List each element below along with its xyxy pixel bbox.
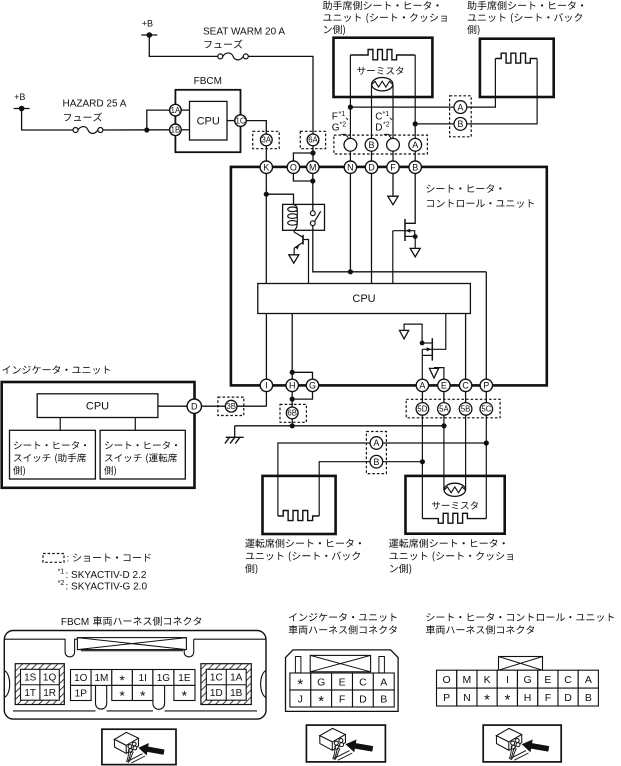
heater element R1 (passenger cushion)	[350, 50, 415, 60]
svg-text:*2: *2	[383, 122, 390, 129]
ground rail	[235, 425, 444, 427]
svg-text:3B: 3B	[226, 402, 236, 411]
wire element right lead to connector	[414, 55, 416, 138]
ground arrow (Q1 emitter)	[289, 255, 299, 263]
indicator connector shell	[286, 650, 399, 712]
node K/coil junction	[264, 192, 269, 197]
connector 5A	[438, 403, 451, 416]
label indicator unit	[2, 365, 110, 374]
pin 1B	[170, 124, 182, 136]
svg-text:O: O	[290, 162, 297, 172]
node N/feed junction	[348, 269, 353, 274]
svg-text:5D: 5D	[417, 405, 427, 414]
node Q2 source/body	[413, 234, 418, 239]
pin A (control unit bottom)	[416, 379, 428, 391]
relay K1 box	[283, 204, 325, 230]
svg-text:C: C	[462, 381, 469, 391]
svg-text:1T: 1T	[24, 688, 36, 699]
wire pin K to CPU U3	[265, 173, 267, 283]
node H/G bottom junction	[290, 397, 295, 402]
wire D to short-code 3B	[201, 405, 225, 407]
heater element R4 (driver cushion)	[422, 513, 486, 523]
svg-text:1O: 1O	[74, 673, 88, 684]
wire pin C to 5B	[465, 392, 467, 403]
short-code A/B dashed box (driver)	[366, 432, 386, 474]
svg-text:CPU: CPU	[197, 115, 220, 127]
label driver back heater line2	[246, 551, 360, 561]
svg-text:K: K	[484, 674, 491, 686]
svg-text:C: C	[375, 112, 382, 123]
passenger connector dashed box	[334, 135, 428, 154]
wire CPU U4 to pin D	[158, 405, 188, 407]
node junction to 1A	[144, 127, 149, 132]
connector 3B	[225, 400, 237, 412]
indicator unit box	[2, 382, 195, 488]
svg-text:M: M	[463, 674, 472, 686]
wire to connector A (back heater)	[350, 106, 454, 108]
node 5D/B-line junction	[420, 459, 425, 464]
svg-text:*: *	[318, 693, 324, 710]
label fuse (HAZARD)	[64, 113, 102, 122]
tick mark on connector C/D	[384, 134, 393, 139]
svg-text:I: I	[506, 674, 509, 686]
CPU U3 (control unit) box	[258, 284, 471, 314]
label passenger cushion heater line3	[324, 25, 345, 35]
indicator connector lock tab (X)	[310, 655, 370, 671]
thermistor T2	[444, 483, 466, 496]
wires connector to unit pins	[350, 151, 415, 161]
node rail/5A junction	[441, 423, 446, 428]
svg-text:D: D	[564, 692, 572, 704]
svg-text:1C: 1C	[210, 672, 223, 683]
label passenger back heater line2	[468, 13, 582, 23]
label driver back heater line1	[245, 539, 361, 548]
connector icon (indicator)	[306, 725, 385, 762]
wire feed to pin P	[485, 272, 487, 379]
wire +B to HAZARD fuse	[22, 109, 73, 131]
svg-text:G: G	[317, 676, 325, 688]
wire relay contact to feed rail	[313, 226, 487, 272]
heater element R2 (passenger back)	[495, 53, 537, 63]
wire Q2 gate to CPU U3	[392, 231, 394, 284]
svg-text:1B: 1B	[230, 688, 243, 699]
short-code 3B dashed box	[218, 397, 244, 415]
wire pin M to relay contact	[312, 173, 314, 211]
svg-text::: :	[67, 553, 70, 564]
FBCM connector shell details	[4, 639, 77, 657]
svg-text:A: A	[585, 674, 592, 686]
svg-text:*: *	[504, 692, 510, 709]
label passenger back heater line1	[467, 1, 583, 10]
svg-text:*1: *1	[383, 111, 390, 118]
short-code A/B dashed box (passenger)	[450, 96, 472, 137]
label passenger cushion heater line2	[323, 13, 446, 23]
label fuse (SEAT WARM)	[204, 40, 242, 49]
svg-text:E: E	[339, 676, 346, 688]
wire CPU U4 to switch 1	[59, 418, 61, 431]
label switch passenger l2	[14, 453, 86, 463]
control connector lock tab (X)	[499, 657, 543, 671]
thermistor T1	[372, 78, 393, 91]
wire 1A to CPU U2	[181, 109, 190, 111]
short-code 3A dashed box	[253, 131, 280, 148]
label driver back heater line3	[245, 564, 257, 574]
connector circle A (driver back)	[370, 437, 383, 450]
passenger cushion heater unit box	[334, 38, 433, 97]
wire branch from pin G (bottom)	[292, 392, 312, 400]
pin D (indicator unit)	[187, 399, 201, 413]
svg-text:A: A	[380, 676, 387, 688]
wire 3A to pin K	[265, 146, 267, 161]
node Q3 source/body	[420, 341, 425, 346]
svg-text:A: A	[457, 102, 463, 112]
wire pin H down to 6B	[291, 392, 293, 407]
wire 5B column to driver thermistor	[465, 415, 467, 490]
wire +B to SEAT WARM fuse	[149, 35, 217, 56]
svg-text:1P: 1P	[75, 689, 88, 700]
seat heater control unit box	[231, 167, 547, 386]
label switch passenger l3	[13, 466, 25, 476]
wire back heater right lead to B	[467, 59, 537, 124]
short-code 6B dashed box	[280, 404, 306, 422]
pin C (control unit bottom)	[459, 379, 471, 391]
svg-text:*1: *1	[58, 569, 65, 576]
wire CPU U3 to pins H/G	[291, 314, 293, 380]
connector circle B (driver back)	[370, 455, 383, 468]
svg-text:*: *	[119, 687, 125, 703]
wire branch to pin G (top)	[292, 372, 312, 379]
svg-text:A: A	[412, 140, 418, 150]
svg-text:+B: +B	[14, 92, 25, 102]
svg-text:E: E	[544, 674, 551, 686]
wire 5D column to driver cushion element	[421, 415, 423, 518]
pin K (control unit top)	[260, 161, 272, 173]
svg-text:3A: 3A	[262, 136, 272, 145]
seat heater switch (passenger) box	[10, 430, 96, 479]
connector circle B (passenger back)	[454, 118, 467, 131]
svg-text:1I: 1I	[139, 673, 147, 684]
wire Q3 source to ground	[404, 324, 422, 343]
fuse HAZARD 25 A	[73, 128, 78, 133]
ground arrow (pin E)	[429, 368, 438, 378]
svg-text:6A: 6A	[308, 136, 318, 145]
CPU U2 (FBCM) box	[190, 101, 228, 140]
wire A to 5C column	[383, 442, 487, 444]
svg-text:1G: 1G	[157, 673, 171, 684]
wire 1C to short-code 3A	[246, 121, 266, 134]
connector 3A	[260, 134, 272, 146]
svg-text:5B: 5B	[461, 405, 471, 414]
svg-text:C: C	[359, 676, 367, 688]
svg-text:B: B	[380, 693, 387, 705]
svg-text:1D: 1D	[210, 688, 223, 699]
wire pin N down	[349, 173, 351, 271]
wire 5C column to driver cushion element	[485, 415, 487, 518]
wire 1B to CPU U2	[181, 129, 190, 131]
wire rail to chassis ground	[234, 426, 236, 438]
driver back heater unit box	[263, 476, 336, 534]
short-code 5D/5A/5B/5C dashed box	[406, 399, 500, 418]
wire 6A down to pin M	[312, 146, 314, 161]
svg-text:D: D	[191, 401, 198, 411]
wire pin P to 5C	[485, 392, 487, 403]
connector circle F/G (blank)	[344, 138, 357, 151]
label passenger cushion heater line1	[323, 1, 439, 10]
label driver cushion heater line2	[390, 551, 513, 561]
svg-text:N: N	[463, 692, 471, 704]
label switch driver l2	[105, 453, 177, 463]
connector 5D	[416, 403, 429, 416]
relay K1 coil	[288, 204, 298, 230]
svg-text:F: F	[390, 162, 396, 172]
svg-text:+B: +B	[142, 19, 153, 29]
svg-text:D: D	[375, 122, 382, 133]
tick mark on connector F/G	[341, 134, 350, 139]
label switch driver l1	[105, 441, 177, 449]
connector circle A (passenger back)	[454, 101, 467, 114]
svg-text:H: H	[524, 692, 532, 704]
heater element R3 (driver back)	[278, 511, 319, 521]
node H/G top junction	[290, 370, 295, 375]
connector icon (FBCM)	[102, 729, 176, 764]
svg-text:*: *	[182, 687, 188, 703]
svg-text:D: D	[359, 693, 367, 705]
driver cushion heater unit box	[406, 476, 505, 534]
wire Q2 source to ground	[414, 237, 416, 249]
label control unit line1	[427, 184, 502, 193]
wire pin D to CPU U3	[371, 173, 373, 283]
label control connector l1	[427, 613, 614, 622]
svg-text:*: *	[297, 676, 303, 693]
wire branch to pin 1A	[147, 110, 170, 130]
svg-text:*: *	[119, 672, 125, 688]
indicator connector pin grid	[290, 673, 311, 690]
seat heater switch (driver) box	[100, 430, 185, 479]
transistor Q1 (relay driver NPN)	[294, 230, 303, 237]
passenger back heater unit box	[480, 39, 554, 97]
svg-text:5C: 5C	[481, 405, 491, 414]
wire CPU U2 to 1C	[227, 120, 235, 122]
wire CPU U3 to pin I	[265, 314, 267, 380]
svg-text:I: I	[265, 381, 268, 391]
wire pin E to 5A	[443, 392, 445, 403]
svg-text:5A: 5A	[439, 405, 449, 414]
control connector pin grid	[437, 670, 457, 688]
svg-text:1A: 1A	[230, 672, 243, 683]
FBCM connector middle pin grid	[71, 670, 92, 686]
pin H (control unit bottom)	[286, 379, 298, 391]
pin N (control unit top)	[344, 161, 356, 173]
label driver cushion heater line3	[390, 564, 411, 574]
wire K branch to relay coil	[266, 194, 293, 204]
wire A to driver back heater	[278, 443, 370, 516]
svg-text:1R: 1R	[43, 688, 56, 699]
MOSFET Q2 gate/body line	[393, 231, 415, 237]
node 5C/A-line junction	[484, 440, 489, 445]
svg-text:G: G	[309, 381, 316, 391]
pin G (control unit bottom)	[306, 379, 318, 391]
short-code 6A dashed box	[300, 131, 325, 148]
wire back heater left lead to A	[467, 59, 496, 108]
svg-text:1M: 1M	[94, 673, 108, 684]
svg-text:P: P	[443, 692, 450, 704]
wire CPU U3 to pin C	[465, 314, 467, 380]
label driver cushion heater line1	[389, 539, 505, 548]
svg-text:A: A	[373, 438, 379, 448]
chassis ground	[226, 436, 244, 438]
indicator connector slots	[295, 657, 301, 673]
FBCM connector pins 1C 1A 1D 1B (hatched block)	[201, 664, 251, 705]
wire B to 5D column	[383, 461, 423, 463]
node junction element/back-heater A	[348, 105, 353, 110]
svg-text:1C: 1C	[236, 116, 246, 125]
node junction element/back-heater B	[413, 121, 418, 126]
MOSFET Q3 source stub	[422, 342, 432, 344]
connector icon (control unit)	[483, 725, 561, 762]
pin I (control unit bottom)	[260, 379, 272, 391]
CPU U4 (indicator) box	[37, 394, 158, 418]
wire to connector B (back heater)	[415, 123, 454, 125]
svg-text:*1: *1	[339, 111, 346, 118]
label indicator connector l1	[289, 613, 397, 622]
wire Q1 base to CPU U3	[303, 240, 309, 284]
svg-text:1E: 1E	[178, 673, 191, 684]
FBCM box	[175, 90, 240, 152]
connector 6B	[286, 407, 298, 419]
ground arrow (Q3 source)	[400, 330, 409, 339]
svg-text:: SKYACTIV-D 2.2: : SKYACTIV-D 2.2	[66, 570, 147, 581]
wire pin B to MOSFET Q2 drain	[405, 173, 415, 223]
pin E (control unit bottom)	[438, 379, 450, 391]
label switch passenger l1	[14, 441, 86, 449]
connector 5B	[459, 403, 472, 416]
pin F (control unit top)	[387, 161, 399, 173]
MOSFET Q2 source stub	[405, 235, 415, 237]
label thermistor (driver)	[432, 501, 478, 509]
svg-text:6B: 6B	[287, 409, 297, 418]
svg-text:1B: 1B	[171, 126, 181, 135]
MOSFET Q2 channel bar	[404, 219, 406, 241]
connector circle A	[409, 138, 422, 151]
svg-text:*2: *2	[340, 122, 347, 129]
svg-text:O: O	[443, 674, 451, 686]
svg-text:D: D	[368, 162, 375, 172]
label control unit line2	[427, 199, 534, 208]
wire pin F to ground	[392, 173, 394, 196]
relay K1 contact	[310, 211, 315, 216]
legend short-code dashed box	[43, 554, 64, 563]
node 6A/O junction	[310, 150, 315, 155]
wire 3B to pin I	[237, 392, 266, 407]
svg-text:CPU: CPU	[86, 400, 109, 412]
connector circle B	[365, 138, 378, 151]
connector circle C/D (blank)	[387, 138, 400, 151]
wire SEAT WARM fuse to connector 6A	[248, 56, 313, 133]
fuse SEAT WARM 20 A	[218, 54, 223, 59]
svg-text:F: F	[545, 692, 551, 704]
svg-text:K: K	[263, 162, 269, 172]
label control connector l2	[426, 625, 534, 634]
pin D (control unit top)	[365, 161, 377, 173]
MOSFET Q3 channel bar	[431, 338, 433, 360]
pin P (control unit bottom)	[480, 379, 492, 391]
node M/O junction	[310, 178, 315, 183]
svg-text:N: N	[347, 162, 354, 172]
svg-text:C: C	[564, 674, 572, 686]
svg-text:J: J	[298, 693, 303, 705]
svg-text:B: B	[373, 457, 379, 467]
pin B (control unit top)	[409, 161, 421, 173]
wire 6B to ground rail	[291, 419, 293, 426]
svg-text:1S: 1S	[24, 672, 37, 683]
svg-text:*: *	[140, 687, 146, 703]
wire element left lead to connector	[349, 55, 351, 138]
ground arrow (Q2 source)	[410, 248, 420, 256]
wire HAZARD fuse to FBCM	[103, 129, 169, 131]
pin M (control unit top)	[307, 161, 319, 173]
wire pin A to 5D	[421, 392, 423, 403]
FBCM connector pins 1S 1Q 1T 1R (hatched block)	[15, 664, 64, 705]
svg-text:E: E	[441, 381, 447, 391]
pin 1A	[170, 104, 182, 116]
svg-text:G: G	[524, 674, 532, 686]
wire branch to pin O	[293, 153, 313, 161]
ground arrow (pin F)	[388, 196, 398, 205]
svg-text:B: B	[368, 140, 374, 150]
svg-text:*: *	[484, 692, 490, 709]
svg-text:FBCM: FBCM	[61, 617, 89, 628]
svg-text:H: H	[289, 381, 296, 391]
svg-text:A: A	[419, 381, 425, 391]
svg-text:1Q: 1Q	[43, 672, 57, 683]
connector 6A	[307, 134, 319, 146]
thermistor T1 leads	[372, 84, 394, 138]
wire CPU U4 to switch 2	[134, 418, 136, 431]
svg-text:P: P	[483, 381, 489, 391]
label switch driver l3	[104, 466, 116, 476]
MOSFET Q3 drain stub	[422, 349, 432, 379]
wire pin E ground link	[434, 368, 444, 380]
svg-text:FBCM: FBCM	[194, 76, 222, 87]
svg-text:1A: 1A	[171, 106, 181, 115]
svg-text:F: F	[332, 112, 338, 123]
label thermistor (passenger)	[357, 67, 403, 75]
svg-text:: SKYACTIV-G 2.0: : SKYACTIV-G 2.0	[66, 582, 148, 593]
label passenger back heater line3	[467, 25, 479, 35]
connector 5C	[480, 403, 493, 416]
FBCM connector shell	[4, 631, 266, 720]
svg-text:M: M	[309, 162, 317, 172]
wire B to driver back heater	[319, 462, 370, 516]
svg-text:B: B	[412, 162, 418, 172]
FBCM connector lock tab (X)	[77, 638, 186, 650]
pin 1C	[235, 115, 247, 127]
svg-text:F: F	[339, 693, 345, 705]
pin O (control unit top)	[287, 161, 299, 173]
MOSFET Q3 gate from CPU U3	[422, 314, 446, 350]
svg-text:B: B	[585, 692, 592, 704]
svg-text:*2: *2	[58, 580, 65, 587]
svg-text:CPU: CPU	[352, 293, 375, 305]
svg-text:HAZARD 25 A: HAZARD 25 A	[63, 99, 127, 110]
svg-text:SEAT WARM 20 A: SEAT WARM 20 A	[203, 27, 285, 38]
wire O branch	[293, 173, 312, 181]
svg-text:B: B	[457, 119, 463, 129]
wire 5A column to driver thermistor	[443, 415, 445, 490]
node 6B/rail junction	[290, 423, 295, 428]
label indicator connector l2	[289, 625, 397, 634]
